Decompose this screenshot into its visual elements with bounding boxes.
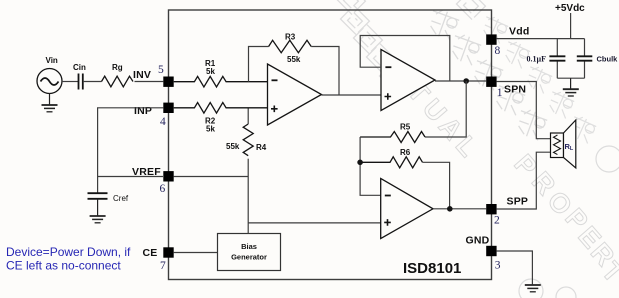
watermark glyph 2 — [447, 32, 482, 66]
svg-text:SPN: SPN — [504, 84, 526, 96]
pin 8 Vdd — [486, 34, 496, 44]
watermark glyph extra 10 — [567, 114, 598, 144]
SPN wire to speaker — [497, 82, 551, 139]
watermark circle bottom — [519, 279, 543, 298]
watermark glyph 4 — [491, 82, 526, 116]
op2 feedback loop — [360, 36, 450, 81]
svg-text:Bias: Bias — [241, 242, 257, 251]
watermark glyph extra 7 — [501, 39, 532, 69]
wire Vin to Cin — [62, 81, 78, 83]
resistor R1 — [174, 76, 268, 87]
wire bias generator up — [247, 177, 249, 234]
svg-text:CE: CE — [143, 247, 158, 259]
speaker RL body — [551, 133, 564, 158]
op3 plus input wire — [248, 222, 381, 224]
svg-text:R3: R3 — [285, 33, 296, 42]
wire VREF pin to R4 node — [174, 176, 249, 178]
Vdd wire — [497, 38, 585, 40]
watermark glyph 1 — [425, 7, 460, 41]
svg-text:Vdd: Vdd — [509, 26, 529, 38]
watermark glyph extra 9 — [545, 89, 576, 119]
cap ground — [570, 78, 572, 89]
watermark glyph 3 — [469, 57, 504, 91]
op2 output wire — [435, 80, 486, 82]
svg-text:5: 5 — [158, 64, 164, 76]
svg-text:55k: 55k — [226, 142, 240, 151]
watermark partial glyph top2 — [456, 0, 485, 20]
resistor R4 — [243, 124, 253, 156]
GND ground symbol — [525, 285, 541, 292]
Bias Generator box — [218, 234, 281, 271]
pin 3 GND — [486, 246, 496, 256]
svg-text:8: 8 — [495, 45, 501, 57]
op1 output wire — [322, 94, 381, 96]
pin 6 VREF — [163, 171, 173, 181]
svg-text:Rg: Rg — [112, 63, 123, 72]
IC box — [169, 10, 492, 280]
junction SPP node — [447, 206, 453, 212]
op-amp U1 — [268, 64, 322, 125]
svg-text:3: 3 — [495, 260, 501, 272]
+5Vdc stem — [570, 13, 572, 39]
pin 4 INP — [163, 103, 173, 113]
resistor R6 — [360, 157, 422, 168]
svg-text:R6: R6 — [400, 148, 411, 157]
watermark glyph extra 8 — [523, 64, 554, 94]
ground (under Vin) — [49, 94, 51, 105]
speaker resistor zigzag — [554, 135, 561, 155]
R3 feedback left vertical — [249, 47, 269, 82]
svg-text:Cin: Cin — [73, 63, 86, 72]
SPP wire to speaker — [497, 152, 551, 209]
wire CE to bias generator — [174, 252, 218, 254]
svg-text:ISD8101: ISD8101 — [403, 260, 461, 277]
watermark circle bottom2 — [556, 287, 576, 298]
capacitor Cbulk — [584, 39, 586, 79]
junction R6 node — [357, 160, 363, 166]
svg-text:Cbulk: Cbulk — [597, 54, 619, 63]
watermark partial glyph top1 — [336, 0, 365, 15]
svg-text:Device=Power Down, if: Device=Power Down, if — [6, 245, 131, 259]
R4 bottom lead — [247, 159, 249, 177]
svg-text:6: 6 — [160, 183, 166, 195]
watermark glyph 5 — [513, 107, 548, 141]
Vin source — [37, 69, 62, 94]
pin 2 SPP — [486, 204, 496, 214]
svg-text:VREF: VREF — [132, 166, 161, 178]
svg-text:CE left as no-connect: CE left as no-connect — [6, 259, 121, 273]
svg-text:INV: INV — [133, 69, 151, 81]
svg-text:5k: 5k — [206, 67, 215, 76]
R5 vertical from SPN node — [425, 81, 466, 137]
junction SPN node — [463, 78, 469, 84]
pin 1 SPN — [486, 77, 496, 87]
svg-text:1: 1 — [497, 87, 503, 99]
svg-text:GND: GND — [466, 235, 490, 247]
resistor R3 — [269, 40, 312, 52]
svg-text:+5Vdc: +5Vdc — [555, 3, 585, 14]
capacitor 0.1uF — [556, 39, 558, 79]
R6 right wire down — [423, 162, 450, 209]
wire Cin to Rg — [83, 81, 102, 83]
capacitor Cref — [88, 193, 108, 199]
watermark glyph extra 6 — [479, 14, 510, 44]
op3 output wire — [433, 208, 486, 210]
R4 vertical line — [247, 109, 249, 125]
svg-text:INP: INP — [134, 105, 152, 117]
resistor R5 — [360, 132, 425, 143]
wire INP left — [98, 108, 164, 177]
resistor Rg — [102, 76, 133, 87]
svg-text:R5: R5 — [400, 123, 411, 132]
speaker horn — [564, 120, 576, 168]
svg-text:0.1µF: 0.1µF — [527, 54, 547, 63]
left vertical R5-R6 — [360, 137, 381, 195]
Cref ground — [97, 199, 99, 216]
svg-text:Vin: Vin — [46, 56, 58, 65]
capacitor Cin — [79, 74, 83, 90]
op-amp U3 — [381, 179, 433, 239]
svg-text:5k: 5k — [206, 125, 215, 134]
svg-text:R4: R4 — [256, 143, 267, 152]
VREF wire — [98, 177, 163, 194]
svg-text:55k: 55k — [287, 55, 301, 64]
pin 7 CE — [163, 247, 173, 257]
GND wire — [497, 251, 533, 284]
R3 right wire — [311, 47, 339, 96]
pin 5 INV — [163, 77, 173, 87]
svg-text:Generator: Generator — [231, 253, 267, 262]
watermark line PROPERTY — [508, 149, 619, 289]
wire Rg to INV pin — [135, 81, 164, 83]
svg-text:Cref: Cref — [113, 194, 129, 203]
op-amp U2 buffer — [381, 50, 435, 111]
svg-text:7: 7 — [160, 260, 166, 272]
cap bottom wire — [557, 77, 584, 79]
watermark circle right — [596, 146, 619, 172]
svg-text:2: 2 — [494, 215, 500, 227]
svg-text:4: 4 — [160, 116, 166, 128]
resistor R2 — [174, 103, 268, 114]
watermark line ELECTUAL — [340, 6, 483, 163]
svg-text:SPP: SPP — [507, 196, 529, 208]
